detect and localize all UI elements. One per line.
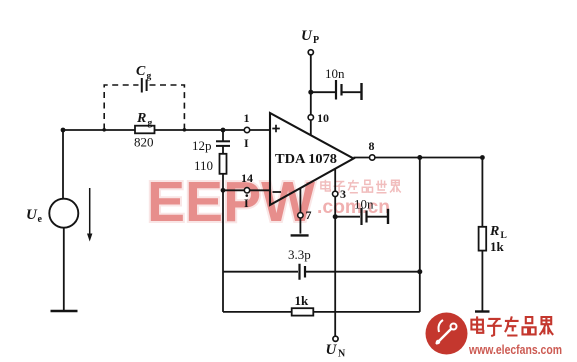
node: feedback tap on output: [417, 155, 422, 160]
svg-text:N: N: [338, 349, 346, 360]
svg-text:7: 7: [306, 208, 312, 222]
label 110: [194, 158, 213, 173]
svg-text:10: 10: [317, 111, 329, 125]
label 12p: [192, 138, 212, 153]
value 820: [134, 135, 154, 150]
ground under pin 7: [291, 234, 309, 236]
capacitor 12p: [216, 141, 230, 146]
watermark .com.cn: [317, 196, 390, 218]
label 10n top: [325, 66, 345, 81]
op-amp minus input mark: [273, 191, 282, 193]
node: branch junction at 12p: [221, 128, 226, 133]
wire: main input horizontal: [63, 129, 270, 131]
wire: UP supply vertical: [310, 55, 312, 136]
wire: left feedback vertical: [222, 190, 224, 312]
wire: right 10n branch: [335, 216, 388, 218]
supply terminal UP: [308, 50, 313, 55]
supply terminal UN: [333, 336, 338, 341]
pin 14 circle: [244, 188, 249, 193]
pin 7 number: [306, 208, 312, 222]
svg-text:TDA 1078: TDA 1078: [275, 151, 337, 166]
label RL: [489, 224, 507, 241]
pin 8 number: [369, 139, 375, 153]
node: 10n top branch junction: [308, 90, 313, 95]
label UP: [301, 28, 319, 46]
svg-text:1k: 1k: [295, 293, 310, 308]
svg-text:3: 3: [340, 187, 346, 201]
svg-text:110: 110: [194, 158, 213, 173]
voltage source U_e: [49, 199, 78, 228]
current arrow beside source: [87, 188, 92, 242]
svg-text:g: g: [147, 72, 152, 82]
capacitor 3.3p: [300, 264, 306, 280]
label 10n right: [354, 197, 374, 212]
svg-text:10n: 10n: [325, 66, 345, 81]
dashed wire: Cg box left: [104, 85, 138, 130]
label 1k feedback: [295, 293, 310, 308]
label UN: [326, 342, 347, 360]
ground bar top 10n: [360, 83, 362, 100]
svg-text:1k: 1k: [490, 239, 505, 254]
watermark chinese characters: [321, 180, 401, 193]
watermark elecfans title characters: [471, 316, 553, 336]
svg-text:1: 1: [244, 111, 250, 125]
wire: bottom 1k path: [223, 311, 420, 313]
svg-text:12p: 12p: [192, 138, 212, 153]
node: inverting input junction: [221, 188, 226, 193]
pin 14 current label I-dot: [244, 194, 249, 210]
wire: 3.3p path: [223, 271, 420, 273]
node: input left junction: [61, 128, 66, 133]
capacitor Cg: [142, 78, 147, 93]
svg-text:10n: 10n: [354, 197, 374, 212]
resistor Rg: [135, 126, 155, 134]
capacitor 10n top: [336, 80, 342, 100]
wire: right feedback vertical: [419, 158, 421, 312]
wire: pin 3 / UN vertical: [334, 169, 336, 336]
pin 10 circle: [308, 115, 313, 120]
watermark elecfans url: [468, 342, 562, 357]
wire: output from op-amp: [354, 157, 483, 159]
svg-text:P: P: [313, 35, 319, 46]
pin 14 number: [241, 171, 253, 185]
wire: 12p to 110: [222, 146, 224, 154]
svg-text:8: 8: [369, 139, 375, 153]
wire: branch down to 12p: [222, 130, 224, 141]
label U_e: [26, 207, 43, 225]
node: dashed right joins wire: [183, 128, 187, 132]
op-amp plus input mark: [272, 125, 280, 133]
op-amp U1 TDA 1078 triangle: [270, 113, 354, 205]
node: RL tap on output: [480, 155, 485, 160]
resistor RL: [479, 227, 487, 251]
pin 10 number: [317, 111, 329, 125]
svg-text:U: U: [301, 28, 313, 44]
value RL 1k: [490, 239, 505, 254]
pin 3 circle: [333, 191, 338, 196]
svg-text:R: R: [136, 111, 146, 126]
pin 3 number: [340, 187, 346, 201]
label Cg: [136, 64, 152, 82]
svg-text:3.3p: 3.3p: [288, 247, 311, 262]
op-amp part label TDA 1078: [275, 151, 337, 166]
label 3.3p: [288, 247, 311, 262]
pin 7 circle: [298, 213, 303, 218]
ground bar right 10n: [387, 209, 389, 224]
wire: top 10n branch: [311, 91, 362, 93]
svg-text:g: g: [148, 119, 153, 129]
capacitor 10n right: [362, 208, 367, 225]
wire: pin 7 stub: [299, 189, 301, 234]
ground under source: [51, 310, 78, 312]
watermark elecfans logo disc: [426, 313, 468, 355]
dashed wire: Cg box right: [150, 85, 185, 130]
watermark EEPW letters: [147, 170, 315, 234]
svg-text:www.elecfans.com: www.elecfans.com: [468, 342, 562, 357]
svg-text:U: U: [26, 207, 38, 223]
resistor 1k feedback: [292, 308, 314, 315]
svg-text:EEPW: EEPW: [147, 170, 315, 234]
node: 10n right branch junction: [333, 214, 338, 219]
node: dashed left joins wire: [102, 128, 106, 132]
svg-text:C: C: [136, 64, 146, 79]
svg-text:e: e: [38, 214, 43, 225]
pin 1 current label I: [244, 136, 249, 150]
pin 1 number: [244, 111, 250, 125]
label Rg: [136, 111, 153, 129]
ground under RL: [475, 310, 490, 312]
wire: left vertical to source: [62, 130, 64, 199]
svg-text:R: R: [489, 224, 499, 239]
wire: source bottom to ground: [63, 228, 65, 311]
svg-text:14: 14: [241, 171, 253, 185]
svg-text:I: I: [244, 196, 249, 210]
svg-text:I: I: [244, 136, 249, 150]
resistor 110: [220, 154, 227, 174]
wire: RL vertical: [481, 158, 483, 312]
pin 1 circle: [244, 127, 249, 132]
wire: 110 down to inverting node: [222, 174, 224, 191]
node: 3.3p joins right vertical: [417, 269, 422, 274]
svg-text:820: 820: [134, 135, 154, 150]
svg-text:U: U: [326, 342, 338, 358]
wire: inverting input horizontal: [223, 189, 270, 191]
pin 8 circle: [370, 155, 375, 160]
